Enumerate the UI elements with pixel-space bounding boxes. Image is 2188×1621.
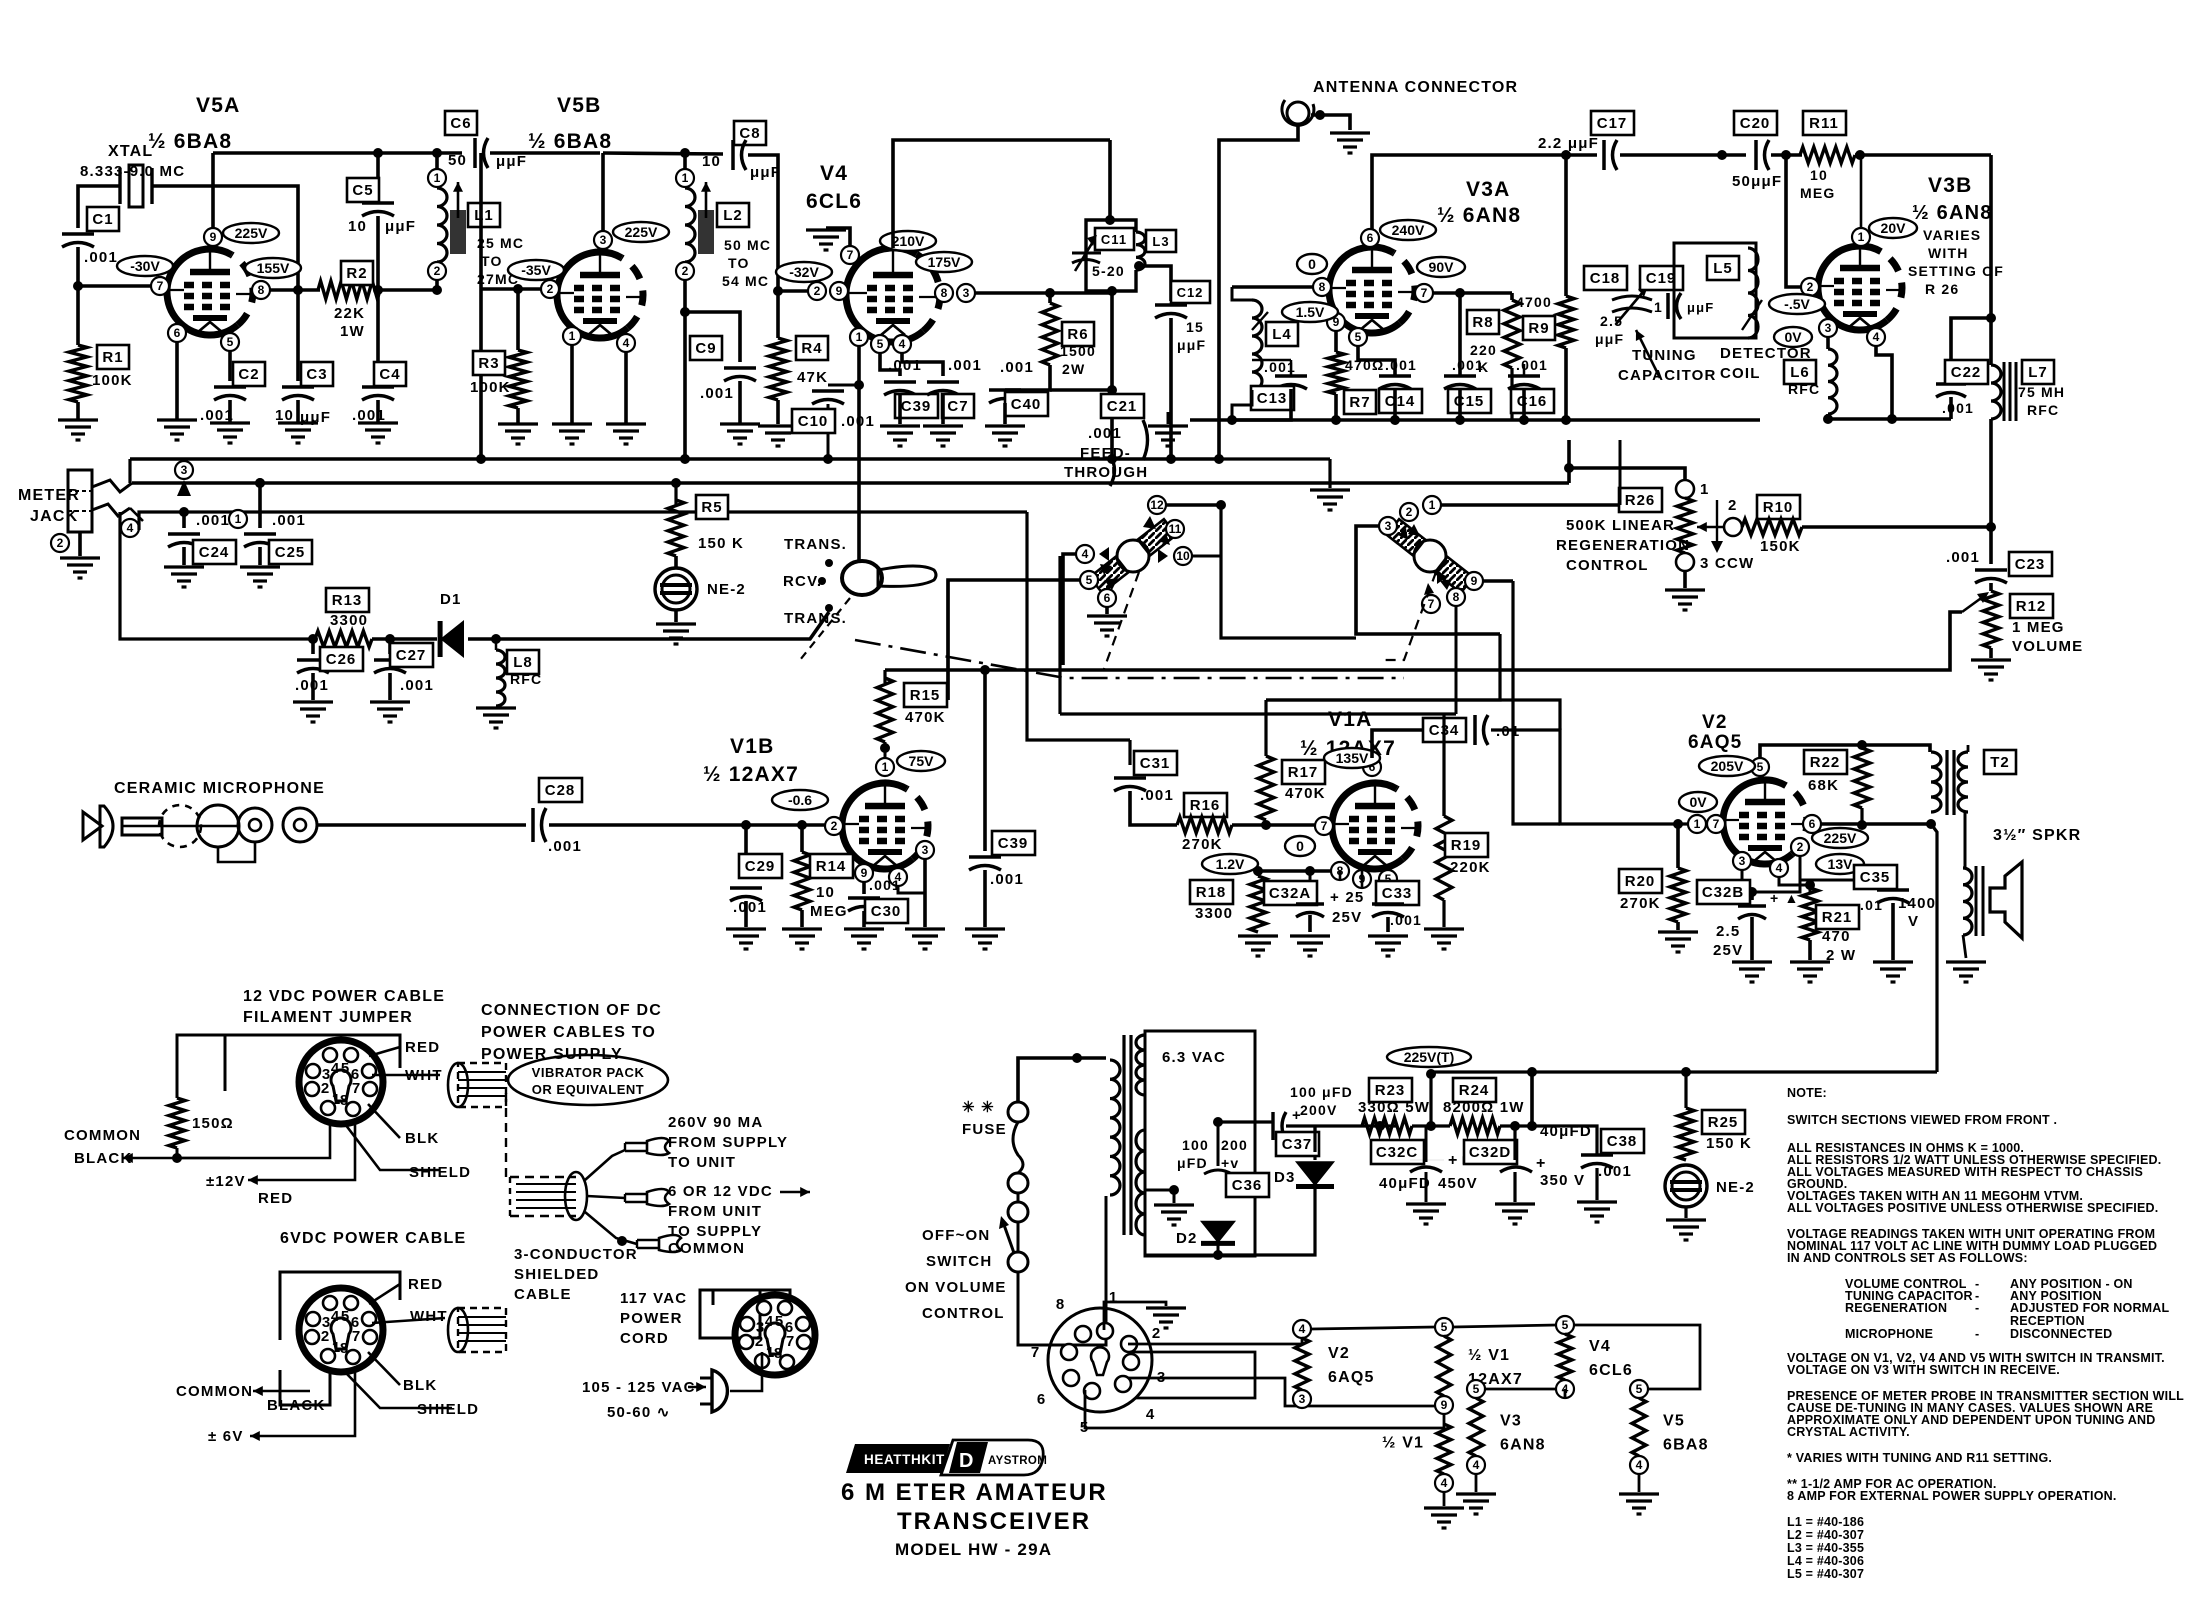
capacitor C28 label bbox=[539, 778, 582, 802]
wire C5 lower lead bbox=[376, 216, 380, 290]
ground under NE-2 psu bbox=[1666, 1220, 1706, 1240]
wire p1 blk bbox=[368, 1104, 400, 1138]
coil L3 bbox=[1136, 232, 1145, 270]
wire C32B to ground bbox=[1750, 917, 1754, 960]
wire R24 right bbox=[1500, 1124, 1532, 1127]
node C15 bus bbox=[1455, 415, 1465, 425]
ground under C4 bbox=[358, 423, 398, 443]
node 150ohm bottom bbox=[172, 1153, 182, 1163]
wire C13 top lead v bbox=[1290, 360, 1293, 376]
svg-text:μμF: μμF bbox=[1177, 337, 1206, 353]
svg-text:200: 200 bbox=[1221, 1137, 1248, 1153]
svg-text:BLK: BLK bbox=[405, 1130, 439, 1147]
wire mic to C28 bbox=[317, 823, 526, 827]
node R22 top bbox=[1857, 740, 1867, 750]
ground under R21 bbox=[1790, 962, 1830, 982]
tank circuit C11/L3 outline bbox=[1086, 220, 1136, 291]
svg-text:L1: L1 bbox=[474, 207, 494, 224]
transformer outline box bbox=[1145, 1031, 1255, 1256]
wire C8/R4 node to V4 grid bbox=[778, 289, 808, 293]
capacitor C6 bbox=[473, 138, 477, 168]
node L1 bottom bbox=[432, 285, 442, 295]
voltage 155V at V5A bbox=[245, 258, 301, 278]
wire node down to R1 bbox=[76, 286, 80, 345]
wire R14 drop bbox=[800, 825, 804, 852]
node xfmr primary top bbox=[1072, 1053, 1082, 1063]
svg-text:150Ω: 150Ω bbox=[192, 1115, 234, 1132]
arrow common black bbox=[123, 1157, 230, 1160]
resistor R23 bbox=[1362, 1118, 1412, 1134]
octal plug P1 12VDC pin 2 bbox=[305, 1082, 319, 1096]
capacitor C9 label bbox=[690, 336, 722, 360]
capacitor C1 label bbox=[87, 207, 119, 231]
svg-text:7: 7 bbox=[1428, 597, 1435, 611]
svg-text:470: 470 bbox=[1822, 928, 1851, 945]
svg-text:VOLUME: VOLUME bbox=[2012, 638, 2083, 655]
svg-text:SHIELDED: SHIELDED bbox=[514, 1266, 599, 1283]
wire bus under top section bbox=[130, 457, 1219, 461]
wire to lug3 bbox=[585, 1212, 637, 1244]
contact trans lower bbox=[825, 604, 833, 612]
pin 9 of V4 bbox=[830, 282, 848, 300]
svg-text:450V: 450V bbox=[1438, 1175, 1478, 1192]
svg-text:8 AMP FOR EXTERNAL POWER SUPPL: 8 AMP FOR EXTERNAL POWER SUPPLY OPERATIO… bbox=[1787, 1489, 2117, 1503]
pin 5 of V2 bbox=[1751, 758, 1769, 776]
svg-text:C37: C37 bbox=[1282, 1136, 1313, 1153]
vibrator pack oval bbox=[508, 1055, 668, 1105]
node R24 out bbox=[1527, 1121, 1537, 1131]
wire pin9 down bbox=[1361, 871, 1364, 888]
pin 7 of V5A bbox=[151, 277, 169, 295]
fuse symbol bbox=[1008, 1102, 1028, 1252]
wire C39b to ground bbox=[983, 870, 987, 927]
svg-text:OR EQUIVALENT: OR EQUIVALENT bbox=[532, 1082, 644, 1097]
wire to C38 bbox=[1532, 1126, 1597, 1155]
svg-text:75V: 75V bbox=[909, 753, 935, 769]
resistor R7 bbox=[1328, 352, 1344, 394]
wire plate line down to C11 bbox=[1108, 140, 1112, 220]
ground under pin1 V5B bbox=[552, 424, 592, 444]
svg-text:68K: 68K bbox=[1808, 777, 1839, 794]
capacitor C21 feedthrough bbox=[1143, 420, 1148, 460]
wire V4 plate up bbox=[893, 140, 1110, 248]
svg-text:50 MC: 50 MC bbox=[724, 237, 771, 253]
Heathkit logo bbox=[846, 1440, 1047, 1475]
svg-text:220K: 220K bbox=[1450, 859, 1491, 876]
wire R11 left down to pin2 bbox=[1786, 155, 1817, 287]
svg-text:6: 6 bbox=[1809, 817, 1816, 831]
svg-text:-: - bbox=[1975, 1327, 1979, 1341]
ground under pin 6 bbox=[157, 420, 197, 440]
crystal X1 bbox=[120, 165, 152, 207]
svg-text:REGENERATION: REGENERATION bbox=[1845, 1301, 1947, 1315]
svg-text:R23: R23 bbox=[1375, 1082, 1406, 1099]
node R23 left bbox=[1375, 1121, 1385, 1131]
svg-text:50μμF: 50μμF bbox=[1732, 173, 1782, 190]
wire jumper top bbox=[177, 1035, 225, 1098]
pin 2 of V1B bbox=[825, 817, 843, 835]
wire v5 gnd bbox=[1638, 1474, 1641, 1492]
svg-text:ADJUSTED FOR NORMAL: ADJUSTED FOR NORMAL bbox=[2010, 1301, 2170, 1315]
svg-text:15: 15 bbox=[1186, 319, 1204, 335]
svg-text:.001: .001 bbox=[1946, 549, 1980, 566]
resistor R8 bbox=[1504, 300, 1520, 368]
svg-text:L4 = #40-306: L4 = #40-306 bbox=[1787, 1554, 1864, 1568]
contact trans upper bbox=[825, 559, 833, 567]
wire C40 to ground bbox=[1003, 403, 1007, 424]
pin 8 of V4 bbox=[935, 284, 953, 302]
arrow 6v bbox=[250, 1435, 330, 1438]
pot R26 terminal 1 bbox=[1676, 480, 1694, 498]
capacitor C17 bbox=[1602, 140, 1606, 170]
pin 4 of V5B bbox=[617, 334, 635, 352]
svg-text:C30: C30 bbox=[871, 903, 902, 920]
wire V3A plate up bbox=[1372, 155, 1597, 246]
svg-text:SHIELD: SHIELD bbox=[417, 1401, 479, 1418]
svg-text:8: 8 bbox=[1319, 280, 1326, 294]
svg-text:FROM UNIT: FROM UNIT bbox=[668, 1203, 762, 1220]
wire R19 top bbox=[1442, 790, 1445, 816]
svg-text:7: 7 bbox=[157, 279, 164, 293]
ground under wafer1 bbox=[1087, 616, 1127, 636]
coil T2 primary bbox=[1931, 752, 1941, 812]
wire C8 right down bbox=[748, 155, 778, 291]
neon lamp NE-2 psu bbox=[1665, 1165, 1707, 1207]
wire bus y459 right bbox=[1219, 457, 1330, 460]
wire v3 gnd bbox=[1475, 1474, 1478, 1492]
wire wafer2 pin8 drop bbox=[1455, 606, 1458, 714]
svg-text:C12: C12 bbox=[1177, 285, 1204, 300]
svg-text:10: 10 bbox=[816, 884, 835, 901]
wire R21 to ground bbox=[1808, 940, 1812, 960]
heater V4 filament bbox=[1558, 1334, 1572, 1380]
wire tank bottom drop bbox=[1110, 291, 1114, 459]
wire C30 to ground bbox=[862, 911, 866, 927]
wire R11 right to corner bbox=[1855, 153, 1991, 157]
wire pin1/7 left bbox=[1648, 822, 1688, 825]
resistor R23 label bbox=[1369, 1078, 1412, 1102]
transformer T2 label bbox=[1984, 750, 2016, 774]
capacitor C34 bbox=[1473, 715, 1477, 745]
pin 3 of V1B bbox=[916, 841, 934, 859]
wire long 700 rail bbox=[946, 580, 949, 700]
capacitor C25 bbox=[244, 532, 276, 536]
diode D2 bbox=[1201, 1221, 1235, 1243]
wafer1 pin 4 bbox=[1076, 545, 1094, 563]
svg-text:L6: L6 bbox=[1790, 364, 1810, 381]
svg-text:L3: L3 bbox=[1152, 234, 1169, 249]
resistor R19 label bbox=[1445, 833, 1488, 857]
coil L7 label bbox=[2022, 360, 2054, 384]
ground under pin4 V5B bbox=[606, 424, 646, 444]
wire pin1 down to switch bbox=[857, 346, 861, 562]
wire pin4 wire bbox=[139, 512, 1027, 530]
wire pin4 to R21 bbox=[1779, 877, 1810, 892]
node R4/V4 grid bbox=[773, 286, 783, 296]
ground under V1 lower bbox=[1424, 1508, 1464, 1528]
svg-text:260V 90 MA: 260V 90 MA bbox=[668, 1114, 763, 1131]
svg-text:C23: C23 bbox=[2015, 556, 2046, 573]
ground under V3 bbox=[1456, 1494, 1496, 1514]
wire V4 out to tank bottom bbox=[1050, 291, 1112, 295]
capacitor C2 bbox=[214, 385, 246, 389]
svg-text:1: 1 bbox=[682, 171, 689, 185]
wire pin3 down bbox=[1826, 337, 1830, 349]
ground under NE-2 bbox=[656, 624, 696, 644]
wire node to pin 7 bbox=[78, 284, 151, 288]
wire R4 top bbox=[776, 291, 780, 338]
wire jack top contact bus bbox=[132, 481, 1569, 485]
svg-text:±12V: ±12V bbox=[206, 1173, 246, 1190]
wire R1 to ground bbox=[76, 402, 80, 420]
resistor R11 label bbox=[1803, 111, 1846, 135]
svg-text:1W: 1W bbox=[340, 323, 365, 340]
capacitor C34 label bbox=[1423, 718, 1466, 742]
wafer2 pin 7 bbox=[1422, 595, 1440, 613]
on-off switch bbox=[1008, 1252, 1028, 1272]
capacitor C23 bbox=[1975, 568, 2007, 572]
capacitor C7 label bbox=[942, 394, 974, 418]
svg-text:D1: D1 bbox=[440, 591, 462, 608]
svg-text:3: 3 bbox=[922, 843, 929, 857]
svg-text:C31: C31 bbox=[1140, 755, 1171, 772]
svg-text:V5B: V5B bbox=[557, 94, 601, 117]
wire socket pin5 down bbox=[1085, 1390, 1444, 1428]
svg-text:DISCONNECTED: DISCONNECTED bbox=[2010, 1327, 2112, 1341]
wire R12 to ground bbox=[1989, 648, 1993, 658]
node C10 bbox=[854, 380, 864, 390]
svg-text:-32V: -32V bbox=[789, 264, 819, 280]
capacitor C32D label bbox=[1464, 1140, 1517, 1164]
resistor R3 label bbox=[473, 351, 505, 375]
wafer2 pin 2 bbox=[1400, 503, 1418, 521]
wire to lug2 bbox=[587, 1196, 625, 1198]
svg-text:R19: R19 bbox=[1451, 837, 1482, 854]
slug of L1 bbox=[450, 210, 466, 254]
node tank rail bbox=[1107, 385, 1117, 395]
svg-text:2: 2 bbox=[321, 1328, 329, 1345]
wire L8 lead bbox=[495, 639, 498, 650]
wire feed 1060 bbox=[1058, 556, 1061, 714]
node V4 plate-screen bbox=[1045, 288, 1055, 298]
svg-text:.001: .001 bbox=[84, 249, 118, 266]
wire R4 to ground bbox=[776, 400, 780, 424]
octal plug P1 12VDC bbox=[299, 1040, 383, 1124]
svg-text:5: 5 bbox=[341, 1060, 349, 1077]
arrow common 6v bbox=[253, 1390, 310, 1393]
pin 7 of V2 bbox=[1707, 815, 1725, 833]
wire pin3 down to cathode node bbox=[1742, 865, 1800, 892]
wire L4 bottom bbox=[1232, 390, 1252, 420]
node T2 bottom feed bbox=[1926, 819, 1936, 829]
wire pin1 down to ground bbox=[570, 345, 574, 424]
svg-text:54 MC: 54 MC bbox=[722, 273, 769, 289]
wire R5 to NE2 bbox=[674, 556, 678, 567]
capacitor C19 label bbox=[1640, 266, 1683, 290]
resistor R1 label bbox=[97, 345, 129, 369]
rotary switch wafer 2 rotor bbox=[1387, 519, 1473, 593]
svg-text:.001: .001 bbox=[1140, 787, 1174, 804]
tube V5B bbox=[557, 252, 643, 338]
wire C14 bottom bbox=[1393, 389, 1397, 420]
ground under meter jack bbox=[60, 558, 100, 578]
svg-text:3 CCW: 3 CCW bbox=[1700, 555, 1754, 572]
node R23 right bbox=[1426, 1121, 1436, 1131]
svg-text:+ ▲: + ▲ bbox=[1770, 890, 1800, 906]
svg-text:4: 4 bbox=[331, 1308, 340, 1325]
svg-text:2: 2 bbox=[434, 264, 441, 278]
resistor R20 label bbox=[1619, 869, 1662, 893]
capacitor C25 label bbox=[269, 540, 312, 564]
wafer2 pin 3 bbox=[1379, 517, 1397, 535]
svg-text:V5: V5 bbox=[1663, 1413, 1685, 1430]
svg-text:R18: R18 bbox=[1196, 884, 1227, 901]
node C29 top bbox=[741, 820, 751, 830]
wire V3 section bus bbox=[1190, 418, 1760, 422]
tube V2 bbox=[1723, 780, 1807, 864]
wire D3 bottom bbox=[1218, 1188, 1315, 1255]
svg-text:TRANSCEIVER: TRANSCEIVER bbox=[897, 1508, 1091, 1535]
svg-text:R11: R11 bbox=[1809, 115, 1839, 132]
arrow 105-125 bbox=[688, 1386, 706, 1389]
wire C23 to R12 bbox=[1989, 583, 1993, 591]
svg-text:✳ ✳: ✳ ✳ bbox=[962, 1099, 995, 1116]
wire C34 out to V2 grid bbox=[1560, 790, 1648, 824]
wafer2 contact arrows bbox=[1408, 524, 1420, 536]
svg-text:3: 3 bbox=[963, 286, 970, 300]
svg-text:1: 1 bbox=[856, 330, 863, 344]
wire 1221 to 638 bbox=[1221, 505, 1356, 638]
pin 3 of V2 bbox=[1733, 852, 1751, 870]
voltage -.5V at V3B bbox=[1769, 294, 1825, 314]
svg-text:2 W: 2 W bbox=[1826, 947, 1856, 964]
capacitor C4 label bbox=[374, 362, 406, 386]
wire 12v to plug bbox=[330, 1124, 355, 1180]
svg-text:-35V: -35V bbox=[521, 262, 551, 278]
svg-text:RFC: RFC bbox=[510, 671, 542, 687]
svg-text:RFC: RFC bbox=[2027, 402, 2059, 418]
svg-text:1: 1 bbox=[882, 760, 889, 774]
capacitor C10 bbox=[812, 389, 844, 393]
wafer1 pin 5 bbox=[1080, 571, 1098, 589]
pin 1 of L1 bbox=[428, 169, 446, 187]
svg-text:± 6V: ± 6V bbox=[208, 1428, 244, 1445]
svg-text:.001: .001 bbox=[1385, 357, 1417, 373]
voltage 240V at V3A bbox=[1380, 220, 1436, 240]
svg-text:R8: R8 bbox=[1472, 314, 1493, 331]
svg-text:C28: C28 bbox=[545, 782, 576, 799]
wire pin4 node down-left rail bbox=[120, 512, 313, 639]
shielded cable 6v bbox=[448, 1308, 506, 1352]
capacitor C31 bbox=[1114, 776, 1146, 780]
ground under R20 bbox=[1658, 932, 1698, 952]
node R11 right bbox=[1855, 150, 1865, 160]
svg-text:R10: R10 bbox=[1763, 499, 1794, 516]
svg-text:200V: 200V bbox=[1300, 1102, 1338, 1118]
svg-text:C4: C4 bbox=[379, 366, 400, 383]
octal plug P3 117VAC pin 7 bbox=[797, 1335, 811, 1349]
octal plug P1 12VDC pin 8 bbox=[346, 1102, 360, 1116]
coil L4 bbox=[1252, 300, 1262, 390]
node wafer1 pin12 wire bbox=[1216, 500, 1226, 510]
ground under speaker bbox=[1946, 962, 1986, 982]
ground under C39a bbox=[880, 426, 920, 446]
jack spring contact A bbox=[92, 480, 132, 492]
svg-text:2: 2 bbox=[1152, 1325, 1160, 1342]
ground under R4 bbox=[758, 426, 798, 446]
pin 8 of V5A bbox=[252, 281, 270, 299]
node R3 top bbox=[513, 284, 523, 294]
node R15 bottom bbox=[880, 743, 890, 753]
heater V2 filament bbox=[1295, 1338, 1309, 1390]
wire R9 down bbox=[1564, 348, 1568, 420]
wire pin8 left bbox=[1232, 285, 1313, 289]
wire C28 to V1B grid bbox=[549, 823, 825, 827]
wire R26 feed bbox=[1569, 468, 1685, 480]
wire R18 top bbox=[1257, 871, 1260, 876]
svg-text:+: + bbox=[1536, 1155, 1545, 1172]
wire gnd drop mid bbox=[1328, 459, 1331, 488]
svg-text:220: 220 bbox=[1470, 342, 1497, 358]
svg-text:5: 5 bbox=[1355, 330, 1362, 344]
rotary switch wafer 1 rotor bbox=[1090, 519, 1176, 593]
svg-text:RED: RED bbox=[408, 1276, 443, 1293]
octal plug P2 6VDC bbox=[299, 1288, 383, 1372]
wire R8 bottom bbox=[1510, 368, 1513, 420]
svg-text:2: 2 bbox=[1728, 497, 1738, 514]
svg-text:3: 3 bbox=[181, 463, 188, 477]
svg-text:1: 1 bbox=[1858, 230, 1865, 244]
svg-text:2: 2 bbox=[755, 1333, 763, 1350]
wire C16 leads bbox=[1523, 364, 1526, 376]
svg-text:270K: 270K bbox=[1620, 895, 1661, 912]
capacitor C35 bbox=[1877, 888, 1909, 892]
svg-text:.001: .001 bbox=[869, 877, 901, 893]
octal plug P1 12VDC pin 5 bbox=[344, 1048, 358, 1062]
ground in PSU bbox=[1154, 1205, 1194, 1225]
node C14 bus bbox=[1390, 415, 1400, 425]
ground under C33 bbox=[1368, 936, 1408, 956]
wire wafer2 pin9 bbox=[1483, 579, 1513, 583]
svg-text:C33: C33 bbox=[1382, 885, 1413, 902]
svg-text:POWER CABLES TO: POWER CABLES TO bbox=[481, 1024, 656, 1041]
svg-text:VIBRATOR PACK: VIBRATOR PACK bbox=[532, 1065, 645, 1080]
svg-text:NOTE:: NOTE: bbox=[1787, 1086, 1827, 1100]
svg-text:R1: R1 bbox=[102, 349, 123, 366]
pin 7 of V3A bbox=[1415, 284, 1433, 302]
svg-text:SHIELD: SHIELD bbox=[409, 1164, 471, 1181]
pot R26 terminal 3 bbox=[1676, 553, 1694, 571]
coil L4 label bbox=[1266, 322, 1298, 346]
svg-text:C10: C10 bbox=[798, 413, 829, 430]
svg-text:C22: C22 bbox=[1951, 364, 1982, 381]
capacitor C5 label bbox=[347, 178, 379, 202]
ground under C32A bbox=[1290, 936, 1330, 956]
svg-text:C32B: C32B bbox=[1702, 884, 1744, 901]
shielded cable 12v bbox=[448, 1063, 506, 1107]
svg-text:8: 8 bbox=[1056, 1296, 1064, 1313]
slug arrow of L1 bbox=[457, 182, 460, 218]
svg-text:7: 7 bbox=[786, 1333, 794, 1350]
spade lug 260V bbox=[625, 1138, 669, 1155]
wafer2 linkage dash bbox=[1380, 572, 1436, 660]
wire p1 red bbox=[369, 1047, 400, 1056]
wire C32C drop bbox=[1425, 1126, 1428, 1162]
octal plug P1 12VDC pin 6 bbox=[362, 1064, 376, 1078]
wire L1 bottom lead bbox=[435, 280, 439, 290]
wire C10 tap bbox=[828, 384, 859, 387]
wire wafer1 pin6 gnd bbox=[1105, 607, 1109, 614]
